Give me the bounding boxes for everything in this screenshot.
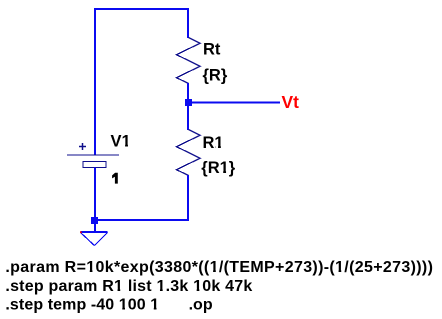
wire to Vt label [188,102,280,104]
node junction bottom-left [91,217,98,224]
svg-text:R1: R1 [203,134,224,152]
svg-text:.step temp -40 100 1: .step temp -40 100 1 [5,296,159,313]
wire left vertical top [94,8,96,155]
spice directive .op [189,296,213,313]
value 1 [112,173,118,184]
svg-text:.op: .op [189,296,213,313]
resistor R1 [177,130,201,176]
ground [81,232,108,246]
resistor Rt [177,38,201,84]
svg-text:.param R=10k*exp(3380*((1/(TEM: .param R=10k*exp(3380*((1/(TEMP+273))-(1… [5,259,433,276]
wire right vertical bottom [187,175,189,221]
label Rt [203,41,221,59]
node Vt junction [185,99,192,106]
wire right vertical top [187,8,189,38]
wire right vertical middle [187,83,189,130]
spice directive .step temp [5,296,159,313]
spice directive .param [5,259,433,276]
svg-text:Rt: Rt [203,41,221,59]
wire top rail [94,8,189,10]
voltage source V1 [67,143,119,168]
svg-text:.step param R1 list 1.3k 10k 4: .step param R1 list 1.3k 10k 47k [5,278,252,295]
value {R1} [201,159,236,177]
wire bottom rail [94,219,189,221]
wire ground stub [94,223,96,232]
label R1 [203,134,224,152]
svg-text:{R}: {R} [203,67,228,85]
spice directive .step param [5,278,252,295]
svg-text:V1: V1 [111,133,131,151]
value {R} [203,67,228,85]
svg-text:{R1}: {R1} [201,159,236,177]
red dot artifact at ground left [80,231,82,233]
wire left vertical bottom [94,168,96,222]
svg-text:Vt: Vt [282,92,300,112]
label V1 [111,133,131,151]
net label Vt [282,92,300,112]
